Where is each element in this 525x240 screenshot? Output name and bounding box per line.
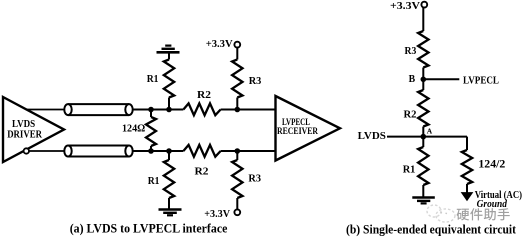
inversion bubble on driver lower output (24, 148, 29, 153)
wire 124/2 to virtual ground arrow (466, 184, 468, 193)
wire driver bottom output to bottom transmission line (29, 150, 65, 152)
op-amp U2 LVPECL receiver triangle (276, 96, 341, 161)
wire node B to LVPECL label (423, 78, 459, 80)
wire R3 to node B (422, 68, 424, 91)
svg-text:+3.3V: +3.3V (204, 208, 230, 220)
svg-text:R1: R1 (147, 74, 159, 85)
wire bottom line: R2 to receiver (221, 150, 275, 152)
+3.3V terminal (top) (206, 38, 241, 50)
resistor R3 (b) (405, 31, 429, 68)
svg-text:LVPECL: LVPECL (463, 75, 499, 86)
resistor R1 (b) (403, 137, 429, 185)
wire terminal to R3 (422, 8, 424, 32)
virtual ground arrow (462, 193, 473, 201)
svg-text:124/2: 124/2 (478, 156, 505, 170)
svg-text:R1: R1 (148, 176, 160, 187)
svg-text:R2: R2 (197, 90, 211, 101)
transmission line T2 (bottom cylinder) (64, 146, 132, 157)
inverted ground (top, above R1) (157, 46, 180, 53)
wire LVDS to node A and to 124/2 branch (387, 136, 467, 138)
wire R1 to ground (422, 185, 424, 198)
wire top line: cylinder to R2 (133, 109, 184, 111)
wire R1 lower to ground (168, 198, 170, 210)
svg-text:R3: R3 (249, 76, 262, 87)
svg-text:(a) LVDS to LVPECL interface: (a) LVDS to LVPECL interface (70, 221, 228, 235)
svg-text:+3.3V: +3.3V (390, 0, 420, 12)
op-amp U1 LVDS driver triangle (3, 97, 64, 162)
svg-text:DRIVER: DRIVER (7, 129, 42, 140)
wire R2 to node A (422, 127, 424, 137)
junction node top-124 (148, 107, 154, 113)
junction node bottom-R3 (235, 148, 241, 154)
svg-text:RECEIVER: RECEIVER (277, 127, 318, 137)
junction node top-R1 (166, 107, 172, 113)
watermark text 硬件助手 (457, 208, 510, 220)
+3.3V terminal (bottom) (204, 208, 240, 220)
wire driver top output to top transmission line (26, 109, 65, 111)
wire top line: R2 to receiver (221, 109, 275, 111)
+3.3V terminal (b) (390, 0, 427, 12)
svg-text:R2: R2 (404, 109, 417, 120)
svg-text:124Ω: 124Ω (122, 123, 145, 135)
resistor R2 (b) (404, 90, 429, 127)
junction node top-R3 (235, 107, 241, 113)
transmission line T1 (top cylinder) (64, 104, 132, 115)
junction node bottom-R1 (166, 148, 172, 154)
svg-text:R3: R3 (405, 46, 417, 57)
svg-text:(b) Single-ended equivalent ci: (b) Single-ended equivalent circuit (346, 223, 516, 237)
resistor R2 (bottom, horizontal) (183, 145, 220, 178)
resistor 124/2 (462, 150, 506, 184)
svg-text:LVDS: LVDS (358, 131, 386, 142)
svg-text:B: B (409, 74, 416, 85)
watermark logo (427, 205, 455, 222)
svg-text:R3: R3 (248, 173, 261, 184)
resistor 124ohm (vertical between lines) (122, 110, 156, 152)
resistor R3 (upper) (232, 60, 261, 98)
resistor R2 (top, horizontal) (183, 90, 220, 115)
svg-text:R1: R1 (403, 165, 416, 176)
resistor R1 (upper) (147, 60, 175, 98)
wire +3.3V to R3 top (236, 48, 238, 60)
wire R3 lower to +3.3V terminal (bottom) (236, 198, 238, 209)
svg-text:R2: R2 (195, 167, 209, 178)
resistor R3 (lower) (232, 151, 261, 198)
wire R1 upper to top line (168, 98, 170, 110)
svg-text:A: A (427, 127, 433, 136)
wire R3 upper to top line (236, 98, 238, 110)
node B (421, 77, 427, 83)
ground (below lower R1) (159, 210, 182, 216)
wire bottom line: cylinder to R2 (133, 150, 184, 152)
junction node bottom-124 (148, 148, 154, 154)
ground (b) (412, 198, 435, 204)
resistor R1 (lower) (148, 151, 175, 198)
svg-text:+3.3V: +3.3V (206, 38, 233, 50)
wire inverted ground to R1 top (168, 54, 170, 60)
wire down to 124/2 (466, 137, 468, 150)
node A (421, 134, 427, 140)
